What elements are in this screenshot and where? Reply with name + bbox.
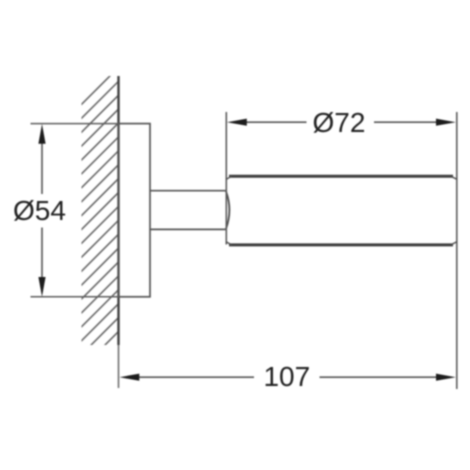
svg-text:107: 107 <box>263 361 310 392</box>
svg-text:Ø54: Ø54 <box>13 195 66 226</box>
svg-text:Ø72: Ø72 <box>313 107 366 138</box>
